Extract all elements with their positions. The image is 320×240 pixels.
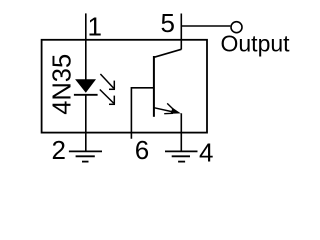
svg-text:Output: Output bbox=[221, 31, 291, 57]
svg-text:1: 1 bbox=[88, 12, 102, 42]
svg-text:6: 6 bbox=[135, 135, 149, 165]
svg-text:2: 2 bbox=[52, 135, 66, 165]
svg-text:4: 4 bbox=[199, 137, 213, 167]
svg-text:4N35: 4N35 bbox=[49, 54, 77, 115]
svg-text:5: 5 bbox=[161, 8, 175, 38]
